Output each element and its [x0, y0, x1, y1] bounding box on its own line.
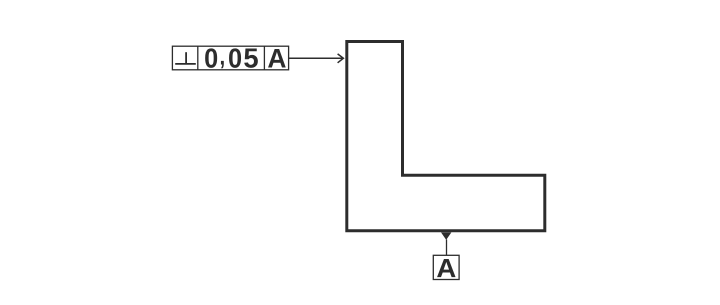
datum label letter A — [437, 259, 456, 277]
datum feature triangle — [441, 232, 451, 240]
datum label box — [433, 255, 459, 279]
leader line from frame to part — [289, 57, 343, 59]
tolerance digit 5 — [244, 48, 258, 67]
tolerance digit 0 (first) — [205, 48, 217, 68]
perpendicularity symbol — [175, 52, 196, 64]
tolerance digit 0 (second) — [229, 48, 241, 68]
datum letter A in frame — [268, 49, 286, 67]
feature control frame divider 2 — [263, 46, 265, 70]
L-shaped part outline — [347, 42, 545, 231]
leader arrowhead — [338, 54, 344, 63]
tolerance decimal comma — [221, 61, 224, 68]
feature control frame divider 1 — [197, 46, 199, 70]
datum leader line — [446, 240, 448, 256]
feature control frame outer box — [172, 46, 288, 70]
